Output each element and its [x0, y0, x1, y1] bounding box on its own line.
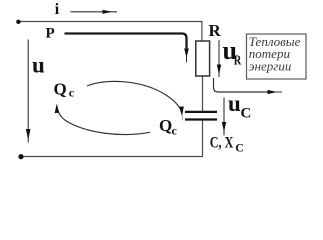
svg-text:c: c	[69, 85, 75, 99]
svg-text:R: R	[209, 21, 222, 40]
svg-text:c: c	[172, 124, 178, 138]
svg-text:C: C	[241, 106, 252, 122]
svg-text:R: R	[234, 52, 242, 67]
svg-text:P: P	[46, 26, 55, 42]
svg-text:Q: Q	[159, 116, 172, 135]
svg-text:энергии: энергии	[249, 58, 292, 73]
svg-text:i: i	[55, 1, 60, 18]
svg-text:u: u	[32, 53, 45, 78]
svg-text:Q: Q	[54, 80, 67, 99]
svg-text:C: C	[235, 141, 244, 155]
svg-text:C, X: C, X	[210, 135, 234, 152]
svg-text:u: u	[228, 91, 241, 116]
